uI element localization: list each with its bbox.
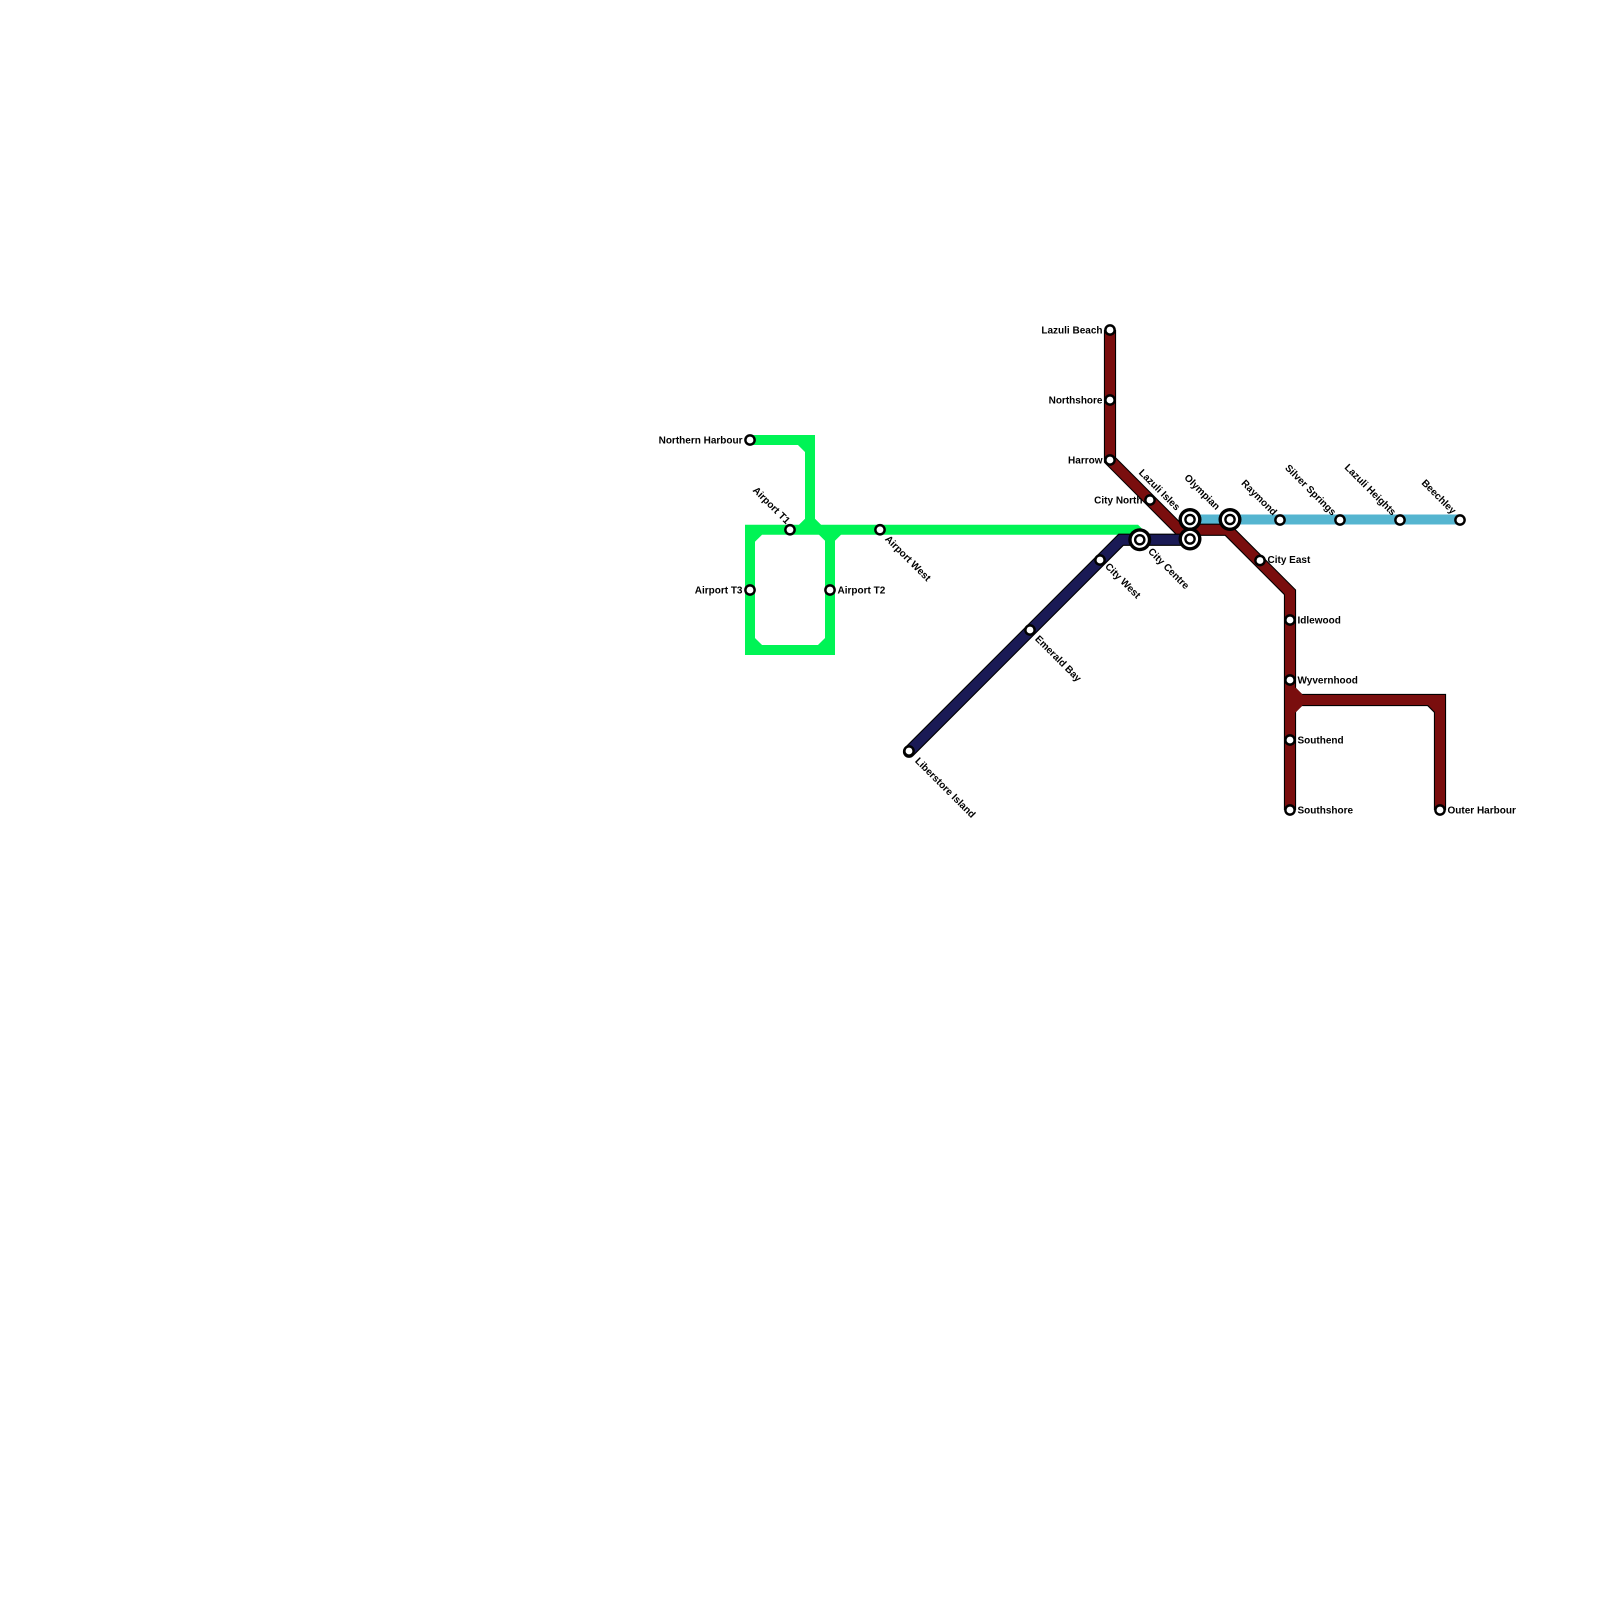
red line branch: Wyvernhood to Outer Harbour bbox=[1290, 700, 1440, 810]
svg-text:Northern Harbour: Northern Harbour bbox=[659, 436, 743, 447]
station City West bbox=[1094, 554, 1106, 566]
svg-text:City East: City East bbox=[1268, 555, 1311, 566]
svg-text:City North: City North bbox=[1094, 496, 1142, 507]
station Lazuli Heights bbox=[1394, 514, 1406, 526]
station Airport West bbox=[874, 524, 886, 536]
wire: green corner fillet at (830,650) bbox=[822, 642, 829, 649]
wire: red junction flare underlay at (1290,700) bbox=[1290, 691, 1299, 709]
wire: green corner fillet at (810,440) bbox=[802, 442, 809, 449]
red line outline (black underlay) bbox=[1110, 330, 1290, 810]
station Liberstore Island bbox=[903, 745, 915, 757]
station Northern Harbour bbox=[744, 434, 756, 446]
station Beechley bbox=[1454, 514, 1466, 526]
svg-text:Wyvernhood: Wyvernhood bbox=[1298, 676, 1358, 687]
wire: green junction flare at (810,530) bbox=[802, 522, 818, 530]
svg-text:Southshore: Southshore bbox=[1298, 806, 1354, 817]
svg-text:Southend: Southend bbox=[1298, 736, 1344, 747]
navy line outline (black underlay) bbox=[909, 540, 1190, 752]
station Emerald Bay bbox=[1024, 624, 1036, 636]
station Northshore bbox=[1104, 394, 1116, 406]
interchange City Centre bbox=[1128, 528, 1151, 551]
svg-text:Idlewood: Idlewood bbox=[1298, 616, 1341, 627]
red line: Lazuli Beach to Southshore bbox=[1110, 330, 1290, 810]
station Raymond bbox=[1274, 514, 1286, 526]
wire: red junction flare at (1290,700) bbox=[1290, 691, 1299, 709]
station Wyvernhood bbox=[1284, 674, 1296, 686]
station City North bbox=[1144, 494, 1156, 506]
svg-text:Outer Harbour: Outer Harbour bbox=[1448, 806, 1516, 817]
red branch outline (black underlay) bbox=[1290, 700, 1440, 810]
interchange Olympian bbox=[1219, 508, 1242, 531]
station Outer Harbour bbox=[1434, 804, 1446, 816]
light blue line bbox=[1188, 515, 1461, 525]
station Southshore bbox=[1284, 804, 1296, 816]
wire: green corner fillet at (750,650) bbox=[752, 642, 759, 649]
green line: airport loop and main trunk bbox=[750, 530, 1145, 650]
wire: red corner fillet underlay at (1440,700) bbox=[1432, 702, 1439, 709]
station Lazuli Beach bbox=[1104, 324, 1116, 336]
green line: Northern Harbour branch bbox=[750, 440, 810, 530]
svg-text:Lazuli Beach: Lazuli Beach bbox=[1041, 326, 1102, 337]
svg-text:Northshore: Northshore bbox=[1049, 396, 1103, 407]
svg-text:Airport T2: Airport T2 bbox=[838, 586, 886, 597]
wire: red corner fillet at (1440,700) bbox=[1432, 702, 1439, 709]
svg-text:Airport T3: Airport T3 bbox=[695, 586, 743, 597]
station Harrow bbox=[1104, 454, 1116, 466]
station Idlewood bbox=[1284, 614, 1296, 626]
interchange Lazuli Isles lower bbox=[1179, 528, 1202, 551]
svg-text:Harrow: Harrow bbox=[1068, 456, 1103, 467]
wire: green junction flare at (830,530) bbox=[822, 530, 838, 538]
interchange Lazuli Isles upper bbox=[1179, 508, 1202, 531]
wire: green corner fillet at (750,530) bbox=[752, 531, 759, 538]
station City East bbox=[1254, 555, 1266, 567]
navy line: Liberstore Island to Olympian bbox=[909, 540, 1190, 752]
station Silver Springs bbox=[1334, 514, 1346, 526]
station Airport T2 bbox=[824, 584, 836, 596]
station Airport T1 bbox=[784, 524, 796, 536]
station Southend bbox=[1284, 734, 1296, 746]
station Airport T3 bbox=[744, 584, 756, 596]
